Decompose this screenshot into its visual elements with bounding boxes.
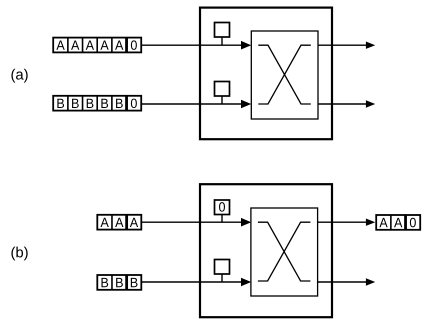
switching element outer box (b) <box>200 184 332 317</box>
label (a) <box>11 69 27 83</box>
output wire 2 (a) <box>318 100 375 107</box>
output cell array (b): A A 0 <box>376 215 420 230</box>
input wire 1 (a) <box>141 41 251 50</box>
input cell array A (b): A A A <box>97 215 141 230</box>
input wire 1 (b) <box>141 218 251 227</box>
control square 2 (a) <box>215 82 230 105</box>
control square 1 (a) <box>215 23 230 46</box>
input wire 2 (b) <box>141 278 251 287</box>
output wire 1 (b) <box>318 219 375 226</box>
crossbar switch (a) box <box>251 31 318 119</box>
label (b) <box>11 247 27 261</box>
switching element outer box (a) <box>200 8 332 140</box>
input cell array B (a): B B B B B 0 <box>53 96 141 111</box>
control square 1 with 0 (b) <box>215 200 230 222</box>
output wire 2 (b) <box>318 278 375 285</box>
input wire 2 (a) <box>141 100 251 109</box>
input cell array B (b): B B B <box>97 275 141 290</box>
crossbar switch (b) cross paths <box>258 222 311 281</box>
crossbar switch (b) box <box>251 208 318 296</box>
crossbar switch (a) cross paths <box>258 45 311 104</box>
control square 2 (b) <box>215 260 230 283</box>
input cell array A (a): A A A A A 0 <box>53 38 141 53</box>
output wire 1 (a) <box>318 42 375 49</box>
